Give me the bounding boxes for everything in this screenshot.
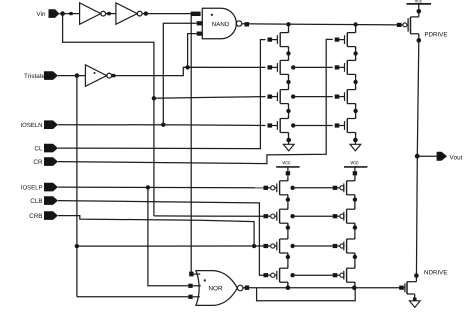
wire U3 net to NAND input 3 (188, 34, 197, 68)
port CLB (31, 196, 58, 205)
node IOSELN junction (161, 123, 165, 127)
node NMOS column 2 top junction (353, 22, 357, 32)
node CRB-M11 junction (252, 244, 256, 248)
port Vout (437, 152, 463, 161)
node PDRIVE drain (417, 38, 422, 43)
transistor M14 (333, 207, 355, 226)
wire PMOS tap at y=246.0 (290, 244, 332, 248)
node NOR input 3 (188, 295, 200, 299)
node NAND input 1 junction bar (191, 12, 201, 16)
node NDRIVE drain (414, 273, 419, 278)
wire CLB to M12 gate (58, 201, 264, 276)
node Vin branch junction (152, 96, 156, 100)
wire NMOS tap at y=96.6 (291, 94, 333, 98)
wire NMOS column 1 chain (286, 47, 290, 140)
transistor M3 (268, 87, 289, 106)
node PMOS column 2 output junction (352, 285, 357, 290)
port IOSELP (21, 183, 58, 192)
wire NAND in1 net vertical to NOR input 1 (190, 16, 192, 274)
node Tristate branch junction (75, 244, 79, 248)
wire IOSELN to NAND input 2 (163, 23, 196, 124)
wire NOR output to NDRIVE gate (243, 287, 400, 289)
ground NDRIVE (409, 298, 420, 308)
node U3 speck (94, 72, 96, 74)
wire Vin branch to M10 gate (154, 215, 264, 217)
wire Vin to inverter U1 with branch (60, 11, 154, 216)
wire U2 output to NAND input 1 (142, 13, 191, 15)
wire Tristate branch down (76, 76, 78, 297)
inverter U3 (85, 65, 111, 86)
nor-gate U5 (196, 271, 243, 306)
transistor M4 (268, 116, 289, 135)
wire PMOS column 1 chain (286, 195, 290, 288)
inverter U1 (80, 3, 106, 24)
transistor NDRIVE (399, 270, 447, 300)
vcc rail PMOS column 1 (276, 161, 299, 181)
node NAND output (245, 22, 250, 26)
transistor M13 (333, 178, 355, 197)
wire CR to M5 gate (58, 39, 333, 163)
wire Tristate to inverter U3 (58, 73, 85, 78)
wire PMOS column 2 chain (353, 195, 357, 288)
transistor M11 (264, 237, 288, 256)
node NOR output (245, 286, 249, 290)
node Vout tap (415, 154, 437, 159)
ground NMOS column 2 (350, 138, 361, 151)
ground NMOS column 1 (283, 138, 294, 151)
nand-gate U4 (197, 8, 242, 39)
vcc rail PMOS column 2 (344, 161, 367, 181)
port IOSELN (21, 120, 58, 129)
transistor M10 (264, 207, 288, 226)
vcc rail PDRIVE (407, 0, 432, 17)
transistor M7 (335, 87, 356, 106)
port Tristate (24, 71, 58, 80)
node U3 net junction (185, 65, 189, 69)
transistor M1 (268, 30, 289, 49)
node IOSELP junction (146, 185, 150, 189)
wire U3 output to M2 gate (112, 67, 266, 75)
port CRB (30, 211, 58, 220)
node U3 output (112, 74, 115, 77)
wire NMOS tap at y=67.4 (291, 65, 333, 69)
wire PMOS tap at y=187.8 (290, 186, 332, 190)
wire NAND output to PDRIVE gate (242, 24, 397, 25)
transistor M2 (268, 58, 289, 77)
transistor M16 (333, 266, 355, 285)
node U1 output (106, 12, 116, 15)
node NMOS column 1 top junction (286, 22, 290, 33)
wire IOSELN to M4 gate (58, 124, 266, 127)
node NOR input 2 (188, 284, 201, 288)
wire PMOS tap at y=216.2 (290, 214, 332, 218)
transistor M5 (335, 30, 356, 49)
wire Tristate branch to NOR input 3 (77, 296, 188, 298)
wire IOSELP to M9 gate (58, 186, 264, 189)
port CL (35, 144, 58, 153)
transistor M8 (335, 116, 356, 135)
wire CRB to M11 gate junction (58, 216, 254, 246)
port CR (34, 157, 58, 166)
wire IOSELP branch to NOR input 2 (148, 187, 188, 285)
wire output node PDRIVE to NDRIVE (416, 40, 418, 281)
node U2 output (144, 11, 148, 15)
transistor M6 (335, 58, 356, 77)
transistor M15 (333, 237, 355, 256)
wire PMOS bulk rail loop (257, 288, 356, 301)
transistor PDRIVE (397, 17, 447, 41)
port Vin (36, 9, 59, 18)
node PMOS column 1 output junction (286, 285, 291, 290)
wire Vin branch to M3 gate (154, 97, 266, 99)
wire CL to M1 gate (58, 40, 266, 149)
inverter U2 (116, 3, 142, 24)
wire NMOS column 2 chain (353, 47, 357, 140)
node NOR input 1 (189, 272, 200, 277)
wire PMOS tap at y=275.2 (290, 273, 332, 277)
transistor M9 (264, 178, 288, 197)
wire NMOS tap at y=125.5 (291, 123, 333, 127)
transistor M12 (264, 266, 288, 285)
wire Tristate branch to M11 gate (77, 245, 264, 247)
